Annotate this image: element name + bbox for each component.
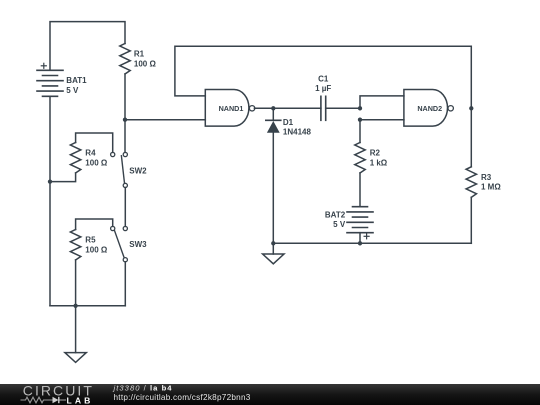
ground symbol bottom-left xyxy=(65,353,86,363)
switch SW2 throw circle right xyxy=(123,152,127,156)
wire R1 bottom to node xyxy=(124,74,126,152)
op... NAND gate NAND1 body xyxy=(205,90,249,127)
junction node NAND2-B/R2 xyxy=(358,118,362,122)
resistor R2 xyxy=(355,143,365,174)
resistor R3 xyxy=(466,167,476,198)
svg-text:1N4148: 1N4148 xyxy=(283,128,312,137)
junction node D1/ground rail xyxy=(271,241,275,245)
switch SW2 common circle xyxy=(123,183,127,187)
svg-text:SW3: SW3 xyxy=(129,240,147,249)
wire top-left loop BAT1+ to R1 xyxy=(50,22,125,71)
wire NAND2 output branch down to R3 xyxy=(470,108,472,167)
wire NAND1 output to C1 xyxy=(254,107,321,109)
svg-text:NAND1: NAND1 xyxy=(219,104,244,113)
wire BAT1- down left rail xyxy=(49,96,51,305)
svg-text:SW2: SW2 xyxy=(129,167,147,176)
resistor R4 xyxy=(70,143,80,174)
junction node BAT2/ground rail xyxy=(358,241,362,245)
wire bottom rail xyxy=(50,305,125,307)
switch SW3 throw circle right xyxy=(123,226,127,230)
wire R5 bottom to bottom rail xyxy=(75,260,77,306)
svg-text:100 Ω: 100 Ω xyxy=(85,158,108,167)
logo waveform tail xyxy=(60,399,67,401)
svg-text:100 Ω: 100 Ω xyxy=(85,245,108,254)
resistor R1 xyxy=(120,44,130,75)
NAND1 output bubble xyxy=(249,106,254,111)
plus sign BAT1 xyxy=(41,63,46,68)
svg-text:BAT2: BAT2 xyxy=(325,210,346,219)
wire R2 bottom to BAT2 xyxy=(359,173,361,207)
switch SW2 lever xyxy=(121,156,124,183)
wire D1 anode stub xyxy=(272,108,274,120)
wire ground stub middle xyxy=(272,243,274,254)
junction node R4/left rail xyxy=(48,179,52,183)
svg-text:100 Ω: 100 Ω xyxy=(134,59,157,68)
junction node R5/bottom rail xyxy=(73,304,77,308)
wire SW2 bottom to SW3 top xyxy=(124,188,126,227)
svg-text:1 kΩ: 1 kΩ xyxy=(370,158,388,167)
wire R4 bottom to left rail xyxy=(50,173,76,182)
wire ground stub bottom-left xyxy=(75,306,77,353)
logo waveform resistor xyxy=(21,397,53,403)
battery BAT1 plates xyxy=(37,70,63,96)
svg-text:1 MΩ: 1 MΩ xyxy=(481,183,501,192)
resistor R5 xyxy=(70,230,80,261)
wire feedback NAND2 out to NAND1 input A xyxy=(175,46,471,108)
svg-text:5 V: 5 V xyxy=(66,86,79,95)
plus sign BAT2 xyxy=(364,234,369,239)
svg-text:LAB: LAB xyxy=(67,395,94,405)
junction node R1/SW2/NAND1-B xyxy=(123,118,127,122)
wire node down to R2 xyxy=(359,120,361,143)
svg-text:1 µF: 1 µF xyxy=(315,84,331,93)
switch SW3 throw circle left xyxy=(111,226,115,230)
wire node to NAND2 input B xyxy=(360,119,404,121)
footer bar xyxy=(0,384,540,405)
svg-text:NAND2: NAND2 xyxy=(417,104,442,113)
diode D1 cathode bar xyxy=(266,119,281,121)
svg-text:R3: R3 xyxy=(481,173,492,182)
svg-text:R5: R5 xyxy=(85,236,96,245)
wire ground rail xyxy=(273,242,471,244)
switch SW3 lever xyxy=(115,231,124,257)
ground symbol middle xyxy=(263,254,284,264)
wire BAT2 bottom to ground rail xyxy=(359,233,361,244)
wire node riser to NAND2 input A xyxy=(360,96,404,108)
wire node to NAND1 input B xyxy=(125,119,205,121)
svg-text:5 V: 5 V xyxy=(333,220,346,229)
NAND2 output bubble xyxy=(448,106,453,111)
wire C1 right to node xyxy=(326,107,360,109)
wire SW3 bottom to bottom rail xyxy=(124,262,126,306)
wire D1 cathode down to ground rail xyxy=(272,133,274,244)
svg-text:R2: R2 xyxy=(370,149,381,158)
svg-text:D1: D1 xyxy=(283,118,294,127)
svg-text:jt3380 / la b4: jt3380 / la b4 xyxy=(113,384,173,393)
junction node NAND1 out/D1 xyxy=(271,106,275,110)
switch SW2 throw circle left xyxy=(111,152,115,156)
wire R5 top hook xyxy=(76,219,113,230)
logo waveform cathode bar xyxy=(58,397,60,403)
svg-text:C1: C1 xyxy=(318,74,329,83)
switch SW3 common circle xyxy=(123,258,127,262)
capacitor C1 plates xyxy=(321,96,326,120)
NAND gate NAND2 body xyxy=(404,90,448,127)
svg-text:R4: R4 xyxy=(85,149,96,158)
junction node NAND2 out/R3 xyxy=(469,106,473,110)
svg-text:BAT1: BAT1 xyxy=(66,76,87,85)
diode D1 triangle xyxy=(267,121,280,133)
battery BAT2 plates xyxy=(347,207,373,233)
svg-text:R1: R1 xyxy=(134,50,145,59)
junction node C1/NAND2-A xyxy=(358,106,362,110)
svg-text:http://circuitlab.com/csf2k8p7: http://circuitlab.com/csf2k8p72bnn3 xyxy=(114,393,251,402)
wire R4 top hook xyxy=(76,133,113,152)
logo waveform diode xyxy=(53,397,59,403)
wire R3 bottom to ground rail xyxy=(470,197,472,243)
